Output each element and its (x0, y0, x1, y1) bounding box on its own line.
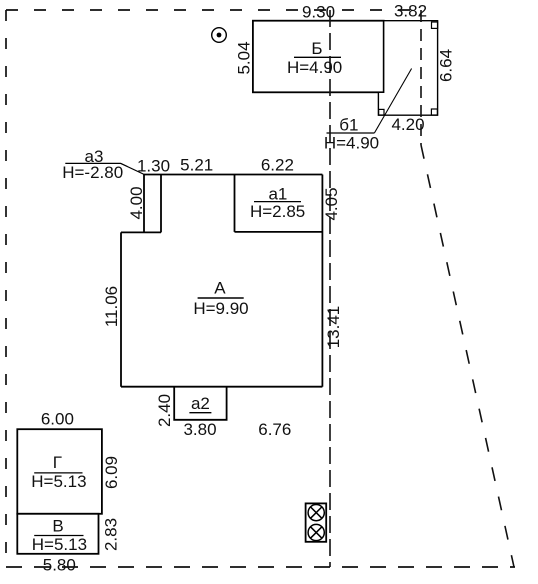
svg-text:А: А (214, 279, 226, 298)
annex a1 bottom edge (235, 231, 323, 233)
b1 corner square bottom-left (379, 109, 384, 115)
label B underline (294, 56, 341, 58)
center dashed line (329, 10, 331, 567)
plot boundary top (dashed) (6, 9, 421, 11)
svg-text:6.64: 6.64 (436, 49, 455, 82)
gas symbol circle-cross upper (308, 504, 324, 520)
svg-text:6.09: 6.09 (102, 456, 121, 489)
svg-text:4.05: 4.05 (322, 187, 341, 220)
svg-text:H=5.13: H=5.13 (31, 472, 86, 491)
svg-text:а2: а2 (191, 394, 210, 413)
label V underline (34, 535, 83, 537)
svg-text:H=5.13: H=5.13 (32, 535, 87, 554)
svg-text:H=9.90: H=9.90 (193, 299, 248, 318)
svg-text:H=4.90: H=4.90 (287, 58, 342, 77)
svg-text:6.00: 6.00 (41, 410, 74, 429)
label a3 underline and leader (65, 163, 144, 174)
label b1 underline (327, 132, 375, 134)
svg-text:4.20: 4.20 (391, 115, 424, 134)
b1 corner square bottom-right (431, 109, 437, 115)
building A left edge (120, 232, 122, 386)
gas symbol circle-cross lower (308, 524, 324, 540)
svg-text:Б: Б (311, 39, 322, 58)
label a1 underline (254, 201, 301, 203)
label a2 underline (189, 412, 211, 414)
svg-text:2.40: 2.40 (155, 394, 174, 427)
svg-text:H=-2.80: H=-2.80 (62, 163, 123, 182)
building A bottom edge (121, 386, 322, 388)
svg-text:а1: а1 (268, 184, 287, 203)
plot boundary right vertical segment (dashed) (420, 10, 422, 145)
svg-text:11.06: 11.06 (102, 286, 121, 327)
svg-text:б1: б1 (339, 116, 358, 135)
svg-text:5.80: 5.80 (43, 555, 76, 574)
svg-text:1.30: 1.30 (137, 157, 170, 176)
building A right edge (321, 175, 323, 387)
building A top-left edge (121, 231, 161, 233)
survey point symbol (circle with dot) (212, 28, 227, 43)
building V rectangle (17, 514, 98, 554)
svg-text:6.22: 6.22 (261, 156, 294, 175)
label b1 leader (374, 69, 411, 134)
plot boundary left (dashed) (5, 10, 7, 567)
svg-text:3.80: 3.80 (183, 420, 216, 439)
svg-text:H=2.85: H=2.85 (250, 202, 305, 221)
svg-text:5.21: 5.21 (180, 156, 213, 175)
annex a1 left edge (234, 175, 236, 232)
svg-text:4.00: 4.00 (127, 186, 146, 219)
svg-text:Г: Г (53, 453, 62, 472)
tower a3 right edge (160, 175, 162, 233)
label G underline (34, 472, 82, 474)
svg-text:6.76: 6.76 (258, 420, 291, 439)
svg-text:13.41: 13.41 (324, 306, 343, 349)
building b1 outline (378, 21, 437, 116)
svg-text:H=4.90: H=4.90 (324, 133, 379, 152)
building G rectangle (17, 429, 102, 514)
svg-text:В: В (52, 516, 63, 535)
building A top line (tower+bump+a1 top) (144, 174, 322, 176)
b1 corner square top-right (432, 22, 438, 28)
building B rectangle (253, 21, 384, 93)
label A underline (198, 297, 244, 299)
svg-text:5.04: 5.04 (235, 41, 254, 74)
gas equipment box (306, 503, 327, 541)
svg-text:2.83: 2.83 (101, 518, 120, 551)
annex a2 outline (174, 387, 226, 420)
plot boundary right slanted segment (dashed) (421, 145, 514, 567)
plot boundary bottom (dashed) (6, 566, 515, 568)
tower a3 left edge (143, 175, 145, 233)
